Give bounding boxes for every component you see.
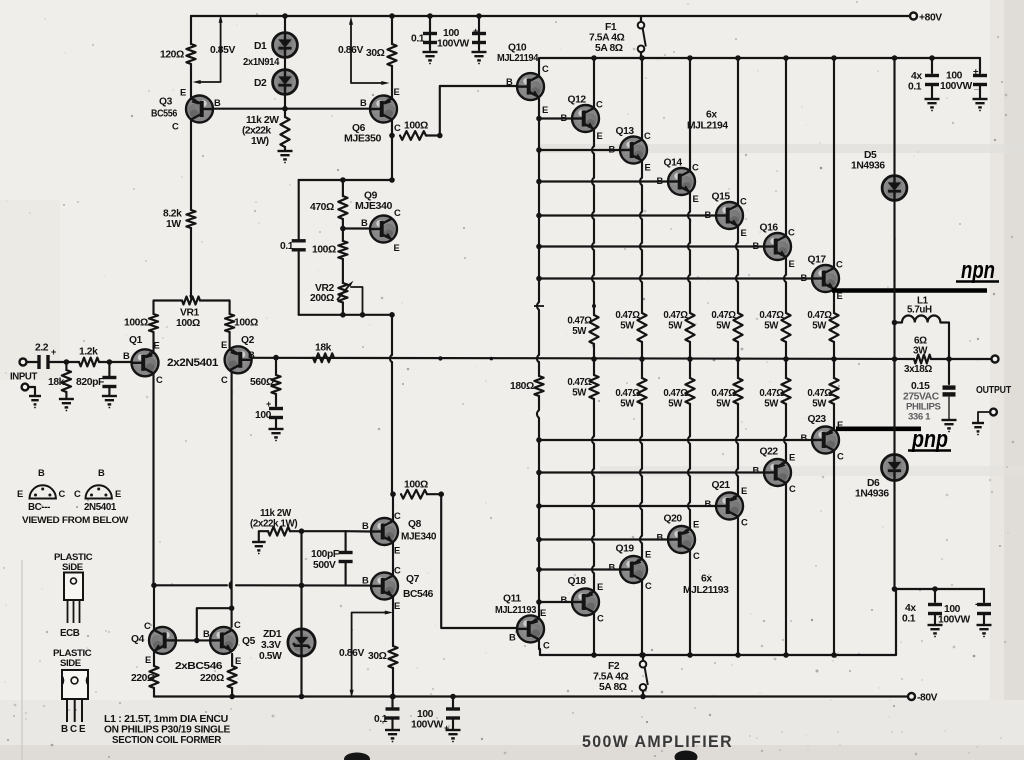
wire 100ohm to Q10 base — [426, 86, 517, 136]
svg-text:0.1: 0.1 — [908, 82, 922, 93]
svg-text:C: C — [221, 374, 228, 385]
ground 18k input — [59, 399, 74, 407]
wire D1 top stub — [284, 16, 286, 33]
svg-text:C: C — [836, 259, 843, 270]
capacitor 0.1 spreader — [292, 239, 306, 251]
svg-text:500W AMPLIFIER: 500W AMPLIFIER — [582, 732, 733, 751]
junction top rail 0.1 cap — [427, 13, 433, 19]
wire input to C1 — [27, 361, 37, 363]
transistor Q14 MJL2194 — [668, 168, 695, 195]
wire Q2 emitter to 100ohm — [229, 332, 231, 349]
svg-text:MJE340: MJE340 — [355, 201, 393, 212]
wire spreader left top — [298, 180, 300, 239]
wire Q4 base to Q5 base — [171, 639, 210, 641]
wire 4x0.1 cap top — [931, 58, 933, 73]
svg-text:C: C — [741, 517, 748, 528]
resistor 1.2k series — [79, 358, 99, 367]
wire Q19 emitter seg — [641, 543, 643, 559]
ground 4x0.1 bottom right — [928, 625, 943, 633]
wire Q22 collector — [785, 483, 787, 655]
wire Q20 emitter seg — [689, 444, 691, 469]
capacitor 820pF — [102, 376, 116, 388]
svg-text:1.2k: 1.2k — [79, 347, 98, 358]
svg-text:0.15: 0.15 — [911, 381, 930, 392]
svg-text:E: E — [235, 655, 241, 666]
svg-text:B C E: B C E — [61, 724, 86, 735]
svg-text:0.47Ω: 0.47Ω — [567, 316, 592, 327]
junction Q21 collector bus — [735, 652, 741, 658]
junction Q12 emitter rail — [591, 356, 597, 362]
wire Q13 emitter seg — [641, 219, 643, 242]
svg-text:+: + — [51, 347, 56, 357]
svg-text:E: E — [741, 227, 747, 238]
wire Q19 emitter seg — [641, 444, 643, 469]
svg-text:100VW: 100VW — [437, 39, 469, 50]
svg-text:C: C — [596, 99, 603, 110]
svg-text:100Ω: 100Ω — [312, 245, 336, 256]
svg-text:C: C — [693, 550, 700, 561]
resistor 8.2k 1W — [186, 210, 195, 228]
junction Q4 collector — [151, 583, 157, 589]
svg-text:0.47Ω: 0.47Ω — [615, 388, 640, 399]
wire Q13 emitter to resistor — [641, 282, 643, 313]
ground 4x0.1 top right — [925, 99, 940, 107]
wire Q18 emitter seg — [593, 573, 595, 591]
wire base rail Q12 — [539, 117, 572, 119]
wire Q13 emitter seg — [641, 185, 643, 211]
svg-text:7.5A 4Ω: 7.5A 4Ω — [589, 33, 625, 44]
wire Q17 emitter to resistor — [833, 289, 835, 313]
wire 180ohm to pnp bus — [538, 396, 540, 410]
wire 100pF top — [345, 531, 347, 551]
wire 11k to ground — [284, 147, 286, 151]
svg-text:5W: 5W — [812, 321, 827, 332]
junction spreader bottom right — [389, 312, 395, 318]
decor blob left — [344, 753, 370, 760]
junction 30ohm rail — [390, 694, 396, 700]
wire Q6 collector — [391, 120, 393, 181]
svg-text:5W: 5W — [572, 388, 587, 399]
transistor Q11 MJL21193 — [517, 615, 544, 642]
wire -80V rail — [154, 695, 908, 697]
annotation npn underline — [956, 280, 999, 283]
svg-text:4x: 4x — [911, 71, 922, 82]
ground output shield — [972, 423, 984, 431]
svg-text:560Ω: 560Ω — [250, 377, 274, 388]
transistor Q3 BC556 — [186, 96, 213, 123]
ground 0.1 bottom left — [385, 730, 400, 738]
wire Q13 emitter seg — [641, 161, 643, 178]
ground input shield — [29, 396, 41, 404]
wire 100VW bl bottom — [452, 720, 454, 731]
potentiometer VR2 200ohm — [338, 283, 347, 303]
resistor 180ohm — [534, 376, 543, 396]
wire Q17 resistor to rail — [833, 342, 835, 359]
wire output rail to OUTPUT terminal — [931, 358, 991, 360]
resistor 0.47ohm 5W Q15 emitter — [733, 313, 742, 342]
resistor 0.47ohm 5W Q16 emitter — [781, 313, 790, 342]
svg-text:B: B — [361, 217, 368, 228]
svg-text:E: E — [789, 258, 795, 269]
svg-text:5W: 5W — [668, 321, 683, 332]
svg-text:100Ω: 100Ω — [404, 480, 428, 491]
svg-text:100Ω: 100Ω — [404, 121, 428, 132]
resistor 100ohm spreader — [338, 241, 347, 259]
svg-text:MJL21193: MJL21193 — [683, 585, 729, 596]
svg-text:820pF: 820pF — [76, 377, 104, 388]
transistor Q19 MJL21193 — [620, 556, 647, 583]
svg-text:Q21: Q21 — [712, 480, 731, 491]
junction 4x0.1 bottom — [932, 586, 938, 592]
wire 220 Q4 to rail — [153, 688, 155, 697]
wire 100ohm to Q11 base — [427, 494, 520, 628]
annotation npn emitter line — [832, 288, 987, 293]
wire VAS column mid — [391, 315, 393, 355]
wire Q18 resistor to rail — [593, 359, 595, 375]
junction base rail Q16 — [536, 244, 542, 250]
wire Q15 emitter seg — [737, 250, 739, 274]
svg-text:C: C — [394, 510, 401, 521]
wire caps line bottom right — [895, 588, 985, 590]
resistor 0.47ohm 5W Q18 emitter — [589, 375, 598, 399]
wire Q18 collector — [593, 613, 595, 656]
wire mirror diode link — [197, 608, 232, 640]
svg-text:MJE340: MJE340 — [401, 532, 437, 543]
svg-text:B: B — [214, 97, 221, 108]
transistor Q17 MJL2194 — [812, 265, 839, 292]
ground 0.15 cap — [942, 420, 957, 428]
svg-text:SIDE: SIDE — [60, 658, 82, 669]
svg-text:120Ω: 120Ω — [160, 50, 184, 61]
svg-text:B: B — [609, 562, 616, 573]
wire Q3 collector to 8.2k — [190, 120, 192, 211]
wire 100uF to ground — [275, 419, 277, 429]
junction spreader bottom 1 — [340, 312, 346, 318]
svg-text:100Ω: 100Ω — [176, 318, 200, 329]
wire Q1 emitter to 100ohm — [152, 332, 154, 352]
svg-text:B: B — [657, 532, 664, 543]
wire base rail Q16 — [539, 245, 764, 247]
wire to Q8 base — [346, 530, 371, 532]
svg-text:C: C — [156, 374, 163, 385]
diode D1 1N914 — [273, 33, 298, 58]
svg-text:C: C — [172, 121, 179, 132]
svg-text:Q23: Q23 — [808, 414, 827, 425]
junction stray dot 594 — [592, 304, 596, 308]
wire Q19 emitter seg — [641, 476, 643, 502]
svg-text:30Ω: 30Ω — [366, 48, 385, 59]
svg-text:2x2N5401: 2x2N5401 — [167, 357, 218, 369]
wire Q18 emitter seg — [593, 476, 595, 502]
wire Q12 emitter to resistor — [593, 282, 595, 315]
junction 100ohm Q8 corner — [438, 491, 444, 497]
wire 0.15 cap bottom — [948, 397, 950, 420]
wire Q22 resistor to rail — [785, 359, 787, 378]
svg-text:C: C — [644, 130, 651, 141]
resistor 0.47ohm 5W Q20 emitter — [685, 378, 694, 404]
junction Q17 emitter rail — [831, 356, 837, 362]
svg-text:0.47Ω: 0.47Ω — [807, 388, 832, 399]
resistor 0.47ohm 5W Q17 emitter — [829, 313, 838, 342]
svg-text:0.47Ω: 0.47Ω — [807, 310, 832, 321]
transistor Q6 MJE350 — [370, 96, 397, 123]
wire ZD1 bottom — [300, 656, 302, 697]
svg-text:ECB: ECB — [60, 628, 80, 639]
wire base rail Q23 — [539, 439, 812, 441]
wire Q15 emitter seg — [737, 226, 739, 243]
svg-text:Q6: Q6 — [352, 123, 366, 134]
svg-text:B: B — [753, 240, 760, 251]
transistor Q20 MJL21193 — [668, 526, 695, 553]
svg-text:Q8: Q8 — [408, 519, 422, 530]
fuse F1 7.5A — [638, 16, 646, 58]
resistor 0.47ohm 5W Q12 emitter — [589, 315, 598, 344]
svg-text:100Ω: 100Ω — [124, 318, 148, 329]
junction Q18 collector bus — [591, 652, 597, 658]
terminal -80V — [908, 693, 915, 700]
svg-text:B: B — [362, 575, 369, 586]
wire gnd to 11k — [259, 531, 268, 542]
wire 470 to 100 — [342, 219, 344, 241]
svg-text:0.47Ω: 0.47Ω — [759, 388, 784, 399]
wire Q14 emitter seg — [689, 192, 691, 212]
symbol TO-3P package — [62, 670, 88, 699]
wire 4x0.1 bottom — [931, 86, 933, 99]
svg-text:SECTION COIL FORMER: SECTION COIL FORMER — [112, 735, 221, 746]
wire 100ohm to VR1 left — [154, 301, 183, 315]
svg-text:Q1: Q1 — [129, 335, 143, 346]
svg-text:30Ω: 30Ω — [368, 651, 387, 662]
svg-text:ZD1: ZD1 — [263, 629, 282, 640]
svg-text:C: C — [542, 63, 549, 74]
svg-text:0.1: 0.1 — [411, 34, 425, 45]
resistor 30ohm Q7 — [388, 646, 397, 668]
wire Q19 emitter to resistor — [641, 404, 643, 436]
transistor Q15 MJL2194 — [716, 202, 743, 229]
wire Q23 collector — [833, 451, 835, 656]
svg-text:E: E — [645, 162, 651, 173]
wire 220 Q5 to rail — [231, 688, 233, 697]
svg-text:E: E — [180, 87, 186, 98]
svg-text:C: C — [788, 227, 795, 238]
svg-text:3x18Ω: 3x18Ω — [904, 364, 932, 375]
resistor 0.47ohm 5W Q23 emitter — [829, 378, 838, 404]
svg-text:E: E — [542, 104, 548, 115]
junction mirror base link — [194, 638, 200, 644]
terminal OUTPUT — [992, 356, 999, 363]
resistor 0.47ohm 5W Q13 emitter — [637, 313, 646, 342]
wire 560 top — [275, 358, 277, 375]
svg-text:7.5A 4Ω: 7.5A 4Ω — [593, 672, 629, 683]
wire Q20 emitter seg — [689, 476, 691, 502]
diode D2 1N914 — [273, 70, 298, 95]
svg-text:1N4936: 1N4936 — [851, 161, 885, 172]
svg-text:6x: 6x — [706, 110, 717, 121]
junction Q19 collector bus — [639, 652, 645, 658]
wire Q13 collector — [641, 58, 643, 140]
transistor Q21 MJL21193 — [716, 493, 743, 520]
svg-text:BC---: BC--- — [28, 502, 50, 513]
junction Q6 collector 100ohm tap — [389, 133, 395, 139]
svg-text:5.7uH: 5.7uH — [907, 305, 932, 316]
svg-text:F2: F2 — [608, 661, 620, 672]
svg-text:100: 100 — [443, 28, 460, 39]
wire C1 to node A — [50, 361, 79, 363]
wire Q12 emitter seg — [593, 129, 595, 146]
transistor Q18 MJL21193 — [572, 589, 599, 616]
capacitor 100pF 500V — [339, 551, 353, 563]
junction D5 rail — [892, 55, 898, 61]
wire 1.2k to Q1 base — [99, 361, 132, 363]
wire Q15 emitter to resistor — [737, 282, 739, 313]
wire Q7 emitter down — [392, 597, 394, 647]
terminal output shield — [990, 409, 997, 416]
junction spreader top right — [389, 177, 395, 183]
svg-text:18k: 18k — [315, 343, 332, 354]
wire Q5 emitter — [231, 654, 233, 666]
wire base rail Q19 — [539, 568, 620, 570]
junction Q15 emitter rail — [735, 356, 741, 362]
diode D5 1N4936 — [882, 176, 907, 201]
resistor 560ohm — [271, 375, 280, 394]
capacitor 100 100VW right — [973, 74, 987, 86]
junction stray dot 1 — [438, 356, 442, 360]
svg-text:6x: 6x — [701, 574, 712, 585]
svg-text:VR1: VR1 — [180, 308, 200, 319]
wire 4x0.1 br stub — [934, 589, 936, 602]
junction 100ohm corner — [437, 133, 443, 139]
symbol TO-126 package — [64, 573, 83, 601]
junction 820pF node — [107, 359, 113, 365]
wire 820pF bottom — [108, 388, 110, 396]
junction Q23 collector bus — [831, 652, 837, 658]
svg-text:3W: 3W — [913, 346, 928, 357]
junction 100ohm Q8 tap — [390, 491, 396, 497]
svg-text:Q14: Q14 — [664, 158, 683, 169]
junction caps line left — [892, 586, 898, 592]
svg-text:5W: 5W — [764, 399, 779, 410]
resistor 120ohm — [186, 44, 195, 64]
wire output rail — [251, 358, 914, 359]
wire base rail Q17 — [539, 277, 812, 279]
svg-text:E: E — [17, 488, 23, 499]
wire +80V top rail — [191, 15, 910, 17]
svg-text:2N5401: 2N5401 — [84, 502, 117, 513]
svg-text:5W: 5W — [620, 321, 635, 332]
wire spreader left bottom — [298, 252, 300, 315]
resistor 18k feedback — [313, 353, 334, 362]
annotation pnp underline — [908, 449, 951, 452]
junction base rail Q14 — [536, 179, 542, 185]
wire base rail Q21 — [539, 505, 716, 507]
svg-text:E: E — [394, 600, 400, 611]
wire output rail to D6 — [893, 359, 895, 455]
annotation 0.86V bottom line — [352, 613, 385, 692]
svg-text:D2: D2 — [254, 78, 267, 89]
potentiometer VR1 100ohm — [182, 297, 200, 305]
wire 0.1 bl stub — [391, 697, 393, 708]
svg-text:E: E — [741, 485, 747, 496]
svg-text:SiDE: SiDE — [62, 562, 84, 573]
svg-text:E: E — [597, 130, 603, 141]
wire Q11 collector — [538, 639, 540, 649]
svg-text:0.47Ω: 0.47Ω — [663, 388, 688, 399]
svg-text:(2x22k: (2x22k — [242, 126, 271, 137]
junction Q16 emitter rail — [783, 356, 789, 362]
svg-text:E: E — [221, 339, 227, 350]
junction base rail Q18 — [536, 599, 542, 605]
svg-text:+: + — [973, 67, 979, 78]
svg-text:5W: 5W — [716, 321, 731, 332]
svg-text:C: C — [234, 619, 241, 630]
resistor 0.47ohm 5W Q14 emitter — [685, 313, 694, 342]
junction D2 base line — [282, 106, 288, 112]
resistor 100ohm Q6 collector — [400, 131, 426, 140]
svg-text:E: E — [540, 607, 546, 618]
svg-text:Q7: Q7 — [406, 574, 420, 585]
svg-text:BC546: BC546 — [403, 589, 434, 600]
svg-text:Q19: Q19 — [616, 544, 635, 555]
junction base rail Q22 — [536, 470, 542, 476]
transistor Q9 MJE340 — [370, 216, 397, 243]
svg-text:+: + — [444, 723, 449, 733]
wire 0.1 bl bottom — [391, 720, 393, 731]
svg-text:-80V: -80V — [917, 693, 938, 704]
wire 120ohm to Q3 emitter — [190, 64, 192, 99]
wire 100VW br bottom — [983, 615, 985, 625]
wire Q9 base — [343, 227, 370, 229]
junction Q13 collector rail — [639, 55, 645, 61]
svg-text:MJE350: MJE350 — [344, 134, 382, 145]
transistor Q10 MJL21194 — [517, 73, 544, 100]
svg-text:Q22: Q22 — [760, 447, 779, 458]
wire Q21 resistor to rail — [737, 359, 739, 378]
svg-text:C: C — [692, 162, 699, 173]
wire Q15 collector — [737, 58, 739, 205]
svg-text:Q17: Q17 — [808, 255, 827, 266]
junction 100VW bl — [450, 694, 456, 700]
svg-text:B: B — [609, 144, 616, 155]
transistor Q5 BC546 — [210, 627, 237, 654]
svg-text:Q18: Q18 — [568, 576, 587, 587]
junction ZD1 top link — [299, 583, 305, 589]
svg-text:B: B — [98, 467, 105, 478]
svg-text:B: B — [657, 175, 664, 186]
wire Q2 collector column — [231, 372, 233, 627]
wire 4x0.1 br bottom — [934, 615, 936, 625]
svg-text:3.3V: 3.3V — [261, 640, 281, 651]
diode D6 1N4936 — [882, 455, 908, 481]
svg-text:500V: 500V — [313, 560, 336, 571]
resistor 100ohm Q1 emitter — [149, 314, 158, 332]
svg-text:100: 100 — [946, 71, 963, 82]
annotation 0.86V arrow line top — [351, 23, 382, 83]
svg-text:1W): 1W) — [251, 136, 269, 147]
svg-text:11k 2W: 11k 2W — [260, 508, 292, 519]
transistor Q2 2N5401 — [225, 346, 252, 373]
capacitor 100 100VW bottom right — [977, 603, 991, 615]
wire 820pF top — [108, 362, 110, 376]
svg-text:Q20: Q20 — [664, 514, 683, 525]
wire Q12 emitter seg — [593, 185, 595, 211]
junction F2 top — [640, 652, 646, 658]
capacitor 0.1 bottom left — [386, 707, 400, 719]
wire 100uF top cap — [478, 16, 480, 50]
svg-text:0.47Ω: 0.47Ω — [711, 388, 736, 399]
wire base rail Q14 — [539, 180, 668, 182]
wire base rail Q18 — [539, 601, 572, 603]
svg-text:D1: D1 — [254, 41, 267, 52]
